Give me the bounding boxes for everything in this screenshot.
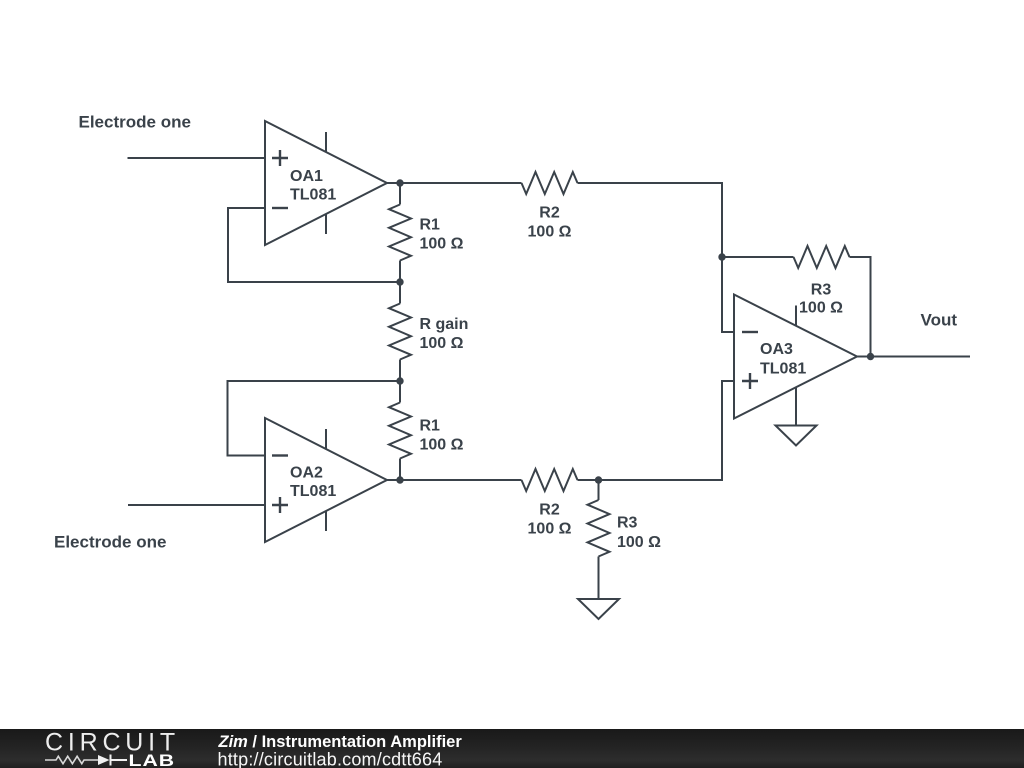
svg-text:R2: R2	[539, 205, 560, 222]
svg-text:R1: R1	[420, 217, 441, 234]
svg-text:R2: R2	[539, 502, 560, 519]
svg-text:100 Ω: 100 Ω	[420, 236, 464, 253]
svg-text:Electrode one: Electrode one	[79, 113, 191, 132]
svg-text:100 Ω: 100 Ω	[528, 521, 572, 538]
svg-text:Vout: Vout	[921, 311, 958, 330]
svg-text:Electrode one: Electrode one	[54, 533, 166, 552]
svg-text:100 Ω: 100 Ω	[617, 534, 661, 551]
svg-text:OA1: OA1	[290, 168, 323, 185]
svg-text:TL081: TL081	[760, 361, 806, 378]
svg-text:R3: R3	[617, 515, 638, 532]
svg-text:100 Ω: 100 Ω	[528, 224, 572, 241]
svg-text:TL081: TL081	[290, 187, 336, 204]
svg-text:100 Ω: 100 Ω	[799, 300, 843, 317]
svg-text:Zim / Instrumentation Amplifie: Zim / Instrumentation Amplifier	[218, 733, 463, 751]
svg-text:R1: R1	[420, 418, 441, 435]
svg-text:http://circuitlab.com/cdtt664: http://circuitlab.com/cdtt664	[218, 750, 443, 768]
svg-text:100 Ω: 100 Ω	[420, 335, 464, 352]
svg-text:R3: R3	[811, 282, 832, 299]
svg-text:R gain: R gain	[420, 316, 469, 333]
svg-text:TL081: TL081	[290, 483, 336, 500]
svg-text:LAB: LAB	[129, 752, 176, 768]
svg-text:OA2: OA2	[290, 465, 323, 482]
svg-text:OA3: OA3	[760, 341, 793, 358]
svg-text:100 Ω: 100 Ω	[420, 437, 464, 454]
